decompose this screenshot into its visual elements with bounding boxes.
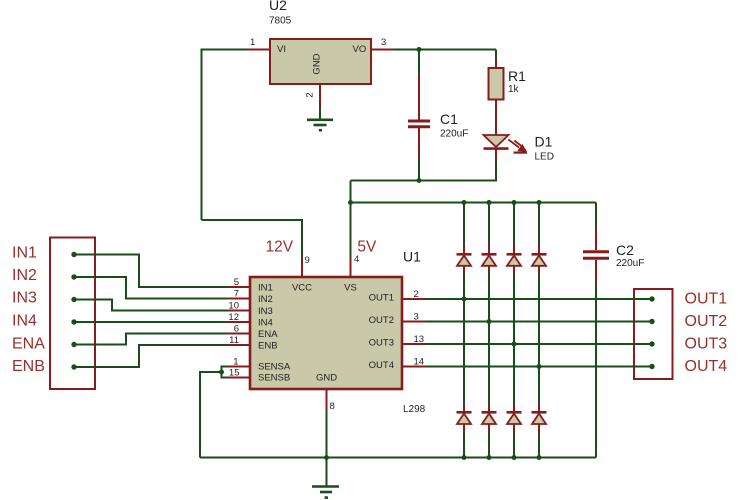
- driver IC U1 body (L298): [250, 277, 402, 389]
- wire diode column 4 upper: [538, 203, 540, 245]
- wire diode column 1 upper: [463, 203, 465, 245]
- output connector body: [634, 289, 673, 379]
- diode D_dn3 cathode bar: [507, 411, 522, 414]
- junction at C1 top: [417, 47, 422, 52]
- svg-text:2: 2: [305, 92, 316, 97]
- diode D_dn2 bottom lead: [488, 424, 490, 433]
- input connector body: [50, 238, 95, 390]
- diode D_dn2 triangle: [482, 414, 496, 425]
- junction top bus column 2: [487, 200, 492, 205]
- wire U1 GND pin to bus: [326, 409, 328, 458]
- svg-text:7805: 7805: [269, 16, 292, 27]
- diode D_up3 cathode bar: [507, 253, 522, 256]
- diode D_up4 top lead: [538, 244, 540, 254]
- input connector pin dot IN2: [71, 274, 76, 279]
- diode D_up3 triangle: [507, 256, 521, 266]
- wire C2 column top (bus corner): [595, 203, 597, 228]
- svg-text:IN2: IN2: [12, 267, 37, 284]
- input connector pin dot IN1: [71, 252, 76, 257]
- svg-text:C2: C2: [616, 242, 634, 258]
- svg-text:5V: 5V: [357, 239, 377, 256]
- wire VS column vertical lower: [350, 203, 352, 259]
- svg-text:IN4: IN4: [12, 312, 37, 329]
- wire SENSB jog: [222, 372, 228, 378]
- U1 pin 15 stub (SENSB): [227, 377, 250, 379]
- wire ENA to U1 pin 6: [74, 334, 227, 345]
- wire IN4 to U1 pin 12: [74, 321, 227, 323]
- svg-text:SENSB: SENSB: [258, 373, 290, 384]
- junction bottom bus column 3: [512, 455, 517, 460]
- svg-text:9: 9: [305, 255, 310, 266]
- wire C1 top segment: [418, 50, 420, 76]
- LED D1 emission arrow 1 shaft: [508, 140, 519, 148]
- resistor R1 body: [489, 68, 504, 100]
- svg-text:220uF: 220uF: [440, 129, 468, 140]
- wire C2 column bottom to ground bus: [595, 283, 597, 458]
- svg-text:D1: D1: [535, 134, 553, 150]
- junction OUT4 row: [537, 364, 542, 369]
- svg-text:1k: 1k: [508, 84, 520, 95]
- wire C1 bottom segment: [418, 158, 420, 181]
- wire U2 pin2 to ground: [319, 107, 321, 120]
- wire diode column 1 middle: [463, 273, 465, 403]
- U1 pin 4 stub (VS): [350, 258, 352, 277]
- diode D_dn4 triangle: [532, 414, 546, 425]
- wire SENS to ground bus: [200, 372, 222, 458]
- LED D1 emission arrow 2 shaft: [514, 141, 523, 148]
- junction VS tap on 5V bus: [348, 200, 353, 205]
- svg-text:4: 4: [354, 254, 359, 265]
- U1 pin 8 stub (GND): [326, 389, 328, 409]
- output connector pin dot OUT1: [649, 296, 654, 301]
- U1 pin 3 stub: [402, 321, 426, 323]
- wire OUT2 to connector: [426, 321, 652, 323]
- diode D_up1 cathode bar: [457, 253, 472, 256]
- wire OUT1 to connector: [426, 298, 652, 300]
- wire ground symbol lead: [326, 458, 328, 487]
- U1 pin 10 stub: [227, 310, 250, 312]
- ground symbol under U2: [307, 120, 333, 130]
- junction SENSA/SENSB tie: [219, 370, 224, 375]
- svg-text:VO: VO: [353, 44, 367, 55]
- svg-text:IN1: IN1: [258, 283, 273, 294]
- wire ENB to U1 pin 11: [74, 345, 227, 367]
- wire 5V top bus: [351, 202, 597, 204]
- resistor R1 bottom lead to LED: [495, 100, 497, 137]
- output connector pin dot OUT3: [649, 341, 654, 346]
- input connector pin dot ENA: [71, 342, 76, 347]
- svg-text:ENB: ENB: [12, 358, 45, 375]
- wire 12V: U2 VI left and down: [202, 50, 248, 221]
- svg-text:OUT2: OUT2: [369, 315, 394, 326]
- svg-text:SENSA: SENSA: [258, 362, 291, 373]
- diode D_up4 bottom lead: [538, 266, 540, 273]
- junction OUT3 row: [512, 342, 517, 347]
- svg-text:OUT2: OUT2: [685, 313, 728, 330]
- svg-text:IN3: IN3: [258, 306, 273, 317]
- diode D_up1 top lead: [463, 244, 465, 254]
- diode D_dn1 cathode bar: [457, 411, 472, 414]
- U2 pin 2 stub: [319, 84, 321, 107]
- svg-text:OUT4: OUT4: [369, 360, 394, 371]
- diode D_dn3 top lead: [513, 403, 515, 412]
- junction top bus column 3: [512, 200, 517, 205]
- LED D1 triangle: [484, 135, 509, 147]
- svg-text:OUT1: OUT1: [685, 291, 728, 308]
- diode D_dn1 bottom lead: [463, 424, 465, 433]
- wire SENSA jog: [222, 367, 228, 373]
- svg-text:U1: U1: [403, 249, 421, 265]
- wire diode column 2 lower: [488, 433, 490, 458]
- input connector pin dot ENB: [71, 364, 76, 369]
- diode D_up2 bottom lead: [488, 266, 490, 273]
- capacitor C2 plates: [583, 252, 609, 259]
- svg-text:8: 8: [330, 401, 335, 412]
- svg-text:ENA: ENA: [258, 329, 278, 340]
- LED D1 bottom lead: [495, 150, 497, 162]
- svg-text:VCC: VCC: [292, 283, 312, 294]
- svg-text:GND: GND: [316, 373, 337, 384]
- wire diode column 2 middle: [488, 273, 490, 403]
- U1 pin 9 stub (VCC): [301, 258, 303, 277]
- svg-text:C1: C1: [440, 111, 458, 127]
- U1 pin 7 stub: [227, 298, 250, 300]
- wire OUT4 to connector: [426, 366, 652, 368]
- input connector pin dot IN3: [71, 297, 76, 302]
- wire IN2 to U1 pin 7: [74, 277, 227, 299]
- junction OUT1 row: [462, 297, 467, 302]
- U1 pin 14 stub: [402, 366, 426, 368]
- svg-text:220uF: 220uF: [616, 258, 644, 269]
- wire IN1 to U1 pin 5: [74, 255, 227, 288]
- wire VS column vertical upper: [350, 181, 352, 203]
- diode D_dn3 bottom lead: [513, 424, 515, 433]
- svg-text:IN2: IN2: [258, 294, 273, 305]
- wire diode column 4 lower: [538, 433, 540, 458]
- wire IN3 to U1 pin 10: [74, 300, 227, 311]
- junction at C1 bottom: [417, 178, 422, 183]
- LED D1 arrowhead: [518, 144, 527, 151]
- svg-text:IN3: IN3: [12, 290, 37, 307]
- diode D_up4 triangle: [532, 256, 546, 266]
- U1 pin 12 stub: [227, 321, 250, 323]
- diode D_dn4 bottom lead: [538, 424, 540, 433]
- svg-text:ENB: ENB: [258, 341, 278, 352]
- svg-text:R1: R1: [508, 68, 526, 84]
- junction OUT2 row: [487, 319, 492, 324]
- junction GND pin on bus: [324, 455, 329, 460]
- svg-text:IN1: IN1: [12, 245, 37, 262]
- output connector pin dot OUT4: [649, 364, 654, 369]
- U1 pin 5 stub: [227, 286, 250, 288]
- diode D_up1 triangle: [457, 256, 471, 266]
- svg-text:1: 1: [250, 37, 255, 48]
- diode D_up2 triangle: [482, 256, 496, 266]
- wire rail corner down to R1: [495, 50, 497, 58]
- LED D1 arrow tail bar: [514, 152, 528, 154]
- diode D_up4 cathode bar: [532, 253, 547, 256]
- diode D_dn2 top lead: [488, 403, 490, 412]
- U1 pin 11 stub: [227, 344, 250, 346]
- diode D_dn4 cathode bar: [532, 411, 547, 414]
- svg-text:OUT3: OUT3: [369, 338, 394, 349]
- output connector pin dot OUT2: [649, 319, 654, 324]
- svg-text:LED: LED: [535, 152, 554, 163]
- junction bottom bus column 4: [537, 455, 542, 460]
- U1 pin 6 stub: [227, 333, 250, 335]
- wire bottom ground bus: [200, 457, 596, 459]
- wire diode column 2 upper: [488, 203, 490, 245]
- U2 pin 3 stub: [371, 49, 394, 51]
- svg-text:OUT1: OUT1: [369, 293, 394, 304]
- diode D_dn3 triangle: [507, 414, 521, 425]
- U1 pin 13 stub: [402, 343, 426, 345]
- wire diode column 3 middle: [513, 273, 515, 403]
- svg-text:12V: 12V: [266, 239, 294, 256]
- diode D_up3 bottom lead: [513, 266, 515, 273]
- diode D_up2 cathode bar: [482, 253, 497, 256]
- junction top bus column 1: [462, 200, 467, 205]
- capacitor C2 lower lead: [595, 260, 597, 283]
- diode D_up1 bottom lead: [463, 266, 465, 273]
- voltage regulator U2 body (7805): [270, 39, 371, 84]
- svg-text:VI: VI: [277, 44, 286, 55]
- diode D_up3 top lead: [513, 244, 515, 254]
- ground symbol bottom: [312, 487, 339, 498]
- U1 pin 2 stub: [402, 298, 426, 300]
- U1 pin 1 stub (SENSA): [227, 366, 250, 368]
- svg-text:VS: VS: [344, 283, 357, 294]
- wire diode column 3 upper: [513, 203, 515, 245]
- wire 5V rail from U2 VO to R1 corner: [394, 49, 496, 51]
- junction bottom bus column 2: [487, 455, 492, 460]
- LED D1 cathode bar: [484, 147, 509, 150]
- svg-text:ENA: ENA: [12, 335, 45, 352]
- capacitor C1 upper lead: [418, 75, 420, 120]
- resistor R1 top lead: [495, 57, 497, 69]
- capacitor C2 upper lead: [595, 227, 597, 250]
- diode D_up2 top lead: [488, 244, 490, 254]
- svg-text:OUT3: OUT3: [685, 336, 728, 353]
- capacitor C1 plates: [408, 121, 430, 127]
- svg-text:GND: GND: [312, 53, 323, 74]
- wire diode column 3 lower: [513, 433, 515, 458]
- wire diode column 4 middle: [538, 273, 540, 403]
- svg-text:IN4: IN4: [258, 318, 273, 329]
- diode D_dn1 top lead: [463, 403, 465, 412]
- junction top bus column 4: [537, 200, 542, 205]
- svg-text:U2: U2: [269, 0, 287, 13]
- svg-text:L298: L298: [403, 404, 426, 415]
- wire OUT3 to connector: [426, 343, 652, 345]
- diode D_dn1 triangle: [457, 414, 471, 425]
- capacitor C1 lower lead: [418, 128, 420, 158]
- input connector pin dot IN4: [71, 319, 76, 324]
- diode D_dn2 cathode bar: [482, 411, 497, 414]
- svg-text:3: 3: [381, 37, 386, 48]
- wire 5V horizontal from LED bottom to VS column: [351, 161, 497, 181]
- diode D_dn4 top lead: [538, 403, 540, 412]
- junction bottom bus column 1: [462, 455, 467, 460]
- U2 pin 1 stub: [247, 49, 270, 51]
- wire 12V: horizontal to VCC column: [202, 220, 303, 258]
- wire diode column 1 lower: [463, 433, 465, 458]
- svg-text:OUT4: OUT4: [685, 358, 728, 375]
